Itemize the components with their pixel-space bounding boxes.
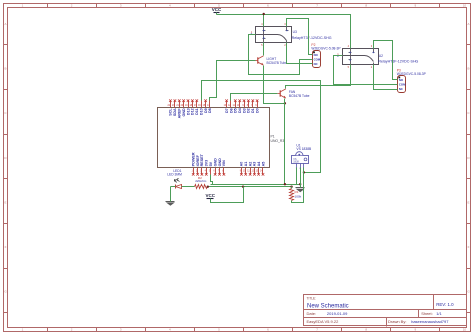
svg-text:F: F <box>468 245 470 249</box>
svg-text:100k: 100k <box>295 195 302 199</box>
svg-text:A: A <box>4 22 6 26</box>
svg-text:Sheet:: Sheet: <box>421 311 433 316</box>
svg-text:D: D <box>4 156 7 160</box>
svg-text:B: B <box>467 67 469 71</box>
svg-text:D5: D5 <box>234 108 238 113</box>
svg-text:NO: NO <box>314 53 319 57</box>
svg-text:D0: D0 <box>255 108 259 113</box>
svg-text:D: D <box>467 156 470 160</box>
svg-text:RelayHT3F-12VDC-SHG: RelayHT3F-12VDC-SHG <box>378 59 418 63</box>
svg-text:GND: GND <box>218 158 222 167</box>
svg-text:VCC: VCC <box>205 193 215 198</box>
svg-text:220ohm: 220ohm <box>195 179 207 183</box>
svg-text:GND: GND <box>182 108 186 117</box>
svg-text:haseenanaushad797: haseenanaushad797 <box>411 319 449 324</box>
svg-text:C: C <box>4 111 7 115</box>
svg-text:D2: D2 <box>247 108 251 113</box>
svg-text:U3: U3 <box>293 30 297 34</box>
svg-text:E: E <box>467 200 469 204</box>
svg-text:SCL: SCL <box>169 108 173 116</box>
svg-text:4: 4 <box>261 22 263 26</box>
svg-text:F: F <box>5 245 7 249</box>
svg-text:2: 2 <box>371 65 373 69</box>
svg-text:E: E <box>4 200 6 204</box>
svg-text:COM: COM <box>399 83 406 87</box>
svg-text:NC: NC <box>314 62 318 66</box>
svg-text:REV: 1.0: REV: 1.0 <box>436 302 454 307</box>
svg-text:G: G <box>4 290 7 294</box>
svg-text:3V3: 3V3 <box>205 160 209 167</box>
svg-text:A: A <box>467 22 469 26</box>
svg-text:D8: D8 <box>208 108 212 113</box>
svg-text:16: 16 <box>198 105 201 107</box>
svg-text:2019-01-09: 2019-01-09 <box>327 311 348 316</box>
svg-text:TITLE:: TITLE: <box>307 296 317 300</box>
svg-text:NO: NO <box>399 78 404 82</box>
svg-text:Date:: Date: <box>307 311 317 316</box>
svg-text:10: 10 <box>463 4 467 8</box>
svg-text:WJEDGVC-5.08-3P: WJEDGVC-5.08-3P <box>311 47 341 51</box>
svg-text:D10: D10 <box>199 108 203 115</box>
svg-text:A4: A4 <box>257 161 261 167</box>
svg-text:WJEDGVC-5.08-3P: WJEDGVC-5.08-3P <box>397 72 427 76</box>
svg-text:G: G <box>467 290 470 294</box>
svg-text:C: C <box>467 111 470 115</box>
svg-text:POWER: POWER <box>192 152 196 166</box>
svg-text:5: 5 <box>348 65 350 69</box>
svg-text:B: B <box>4 67 6 71</box>
svg-text:9: 9 <box>242 105 244 107</box>
svg-text:3: 3 <box>371 44 373 48</box>
svg-text:RESET: RESET <box>200 153 204 166</box>
svg-text:A1: A1 <box>244 162 248 167</box>
svg-text:BC547B Tube: BC547B Tube <box>289 94 310 98</box>
svg-text:1: 1 <box>251 30 253 34</box>
svg-text:D7: D7 <box>225 108 229 113</box>
svg-text:D3: D3 <box>242 108 246 113</box>
svg-text:Drawn By:: Drawn By: <box>388 319 406 324</box>
svg-text:D12: D12 <box>191 108 195 115</box>
svg-text:VCC: VCC <box>212 7 222 12</box>
svg-text:10: 10 <box>463 328 467 332</box>
svg-text:D13: D13 <box>186 108 190 115</box>
svg-text:NC: NC <box>399 87 403 91</box>
svg-text:11: 11 <box>247 171 250 173</box>
svg-text:New Schematic: New Schematic <box>307 304 349 310</box>
svg-text:COM: COM <box>314 57 321 61</box>
svg-text:UNO_R3: UNO_R3 <box>271 139 285 143</box>
svg-text:VIN: VIN <box>222 160 226 166</box>
svg-text:SDA: SDA <box>173 108 177 116</box>
svg-text:EasyEDA V5.9.22: EasyEDA V5.9.22 <box>307 319 340 324</box>
svg-text:VS 1838B: VS 1838B <box>296 147 312 151</box>
svg-text:P1: P1 <box>271 135 275 139</box>
svg-text:1838: 1838 <box>293 161 299 164</box>
svg-text:GND: GND <box>213 158 217 167</box>
svg-text:5: 5 <box>261 43 263 47</box>
svg-text:BC547B Tube: BC547B Tube <box>267 61 288 65</box>
svg-text:4: 4 <box>348 44 350 48</box>
svg-text:A5: A5 <box>261 162 265 167</box>
svg-text:1/1: 1/1 <box>436 311 442 316</box>
svg-text:U2: U2 <box>379 54 383 58</box>
svg-text:19: 19 <box>185 105 188 107</box>
svg-text:5V: 5V <box>209 161 213 166</box>
svg-text:R1: R1 <box>295 190 299 194</box>
svg-text:RelayHT3F-12VDC-SHG: RelayHT3F-12VDC-SHG <box>292 36 332 40</box>
svg-text:LED 3MM: LED 3MM <box>167 173 182 177</box>
